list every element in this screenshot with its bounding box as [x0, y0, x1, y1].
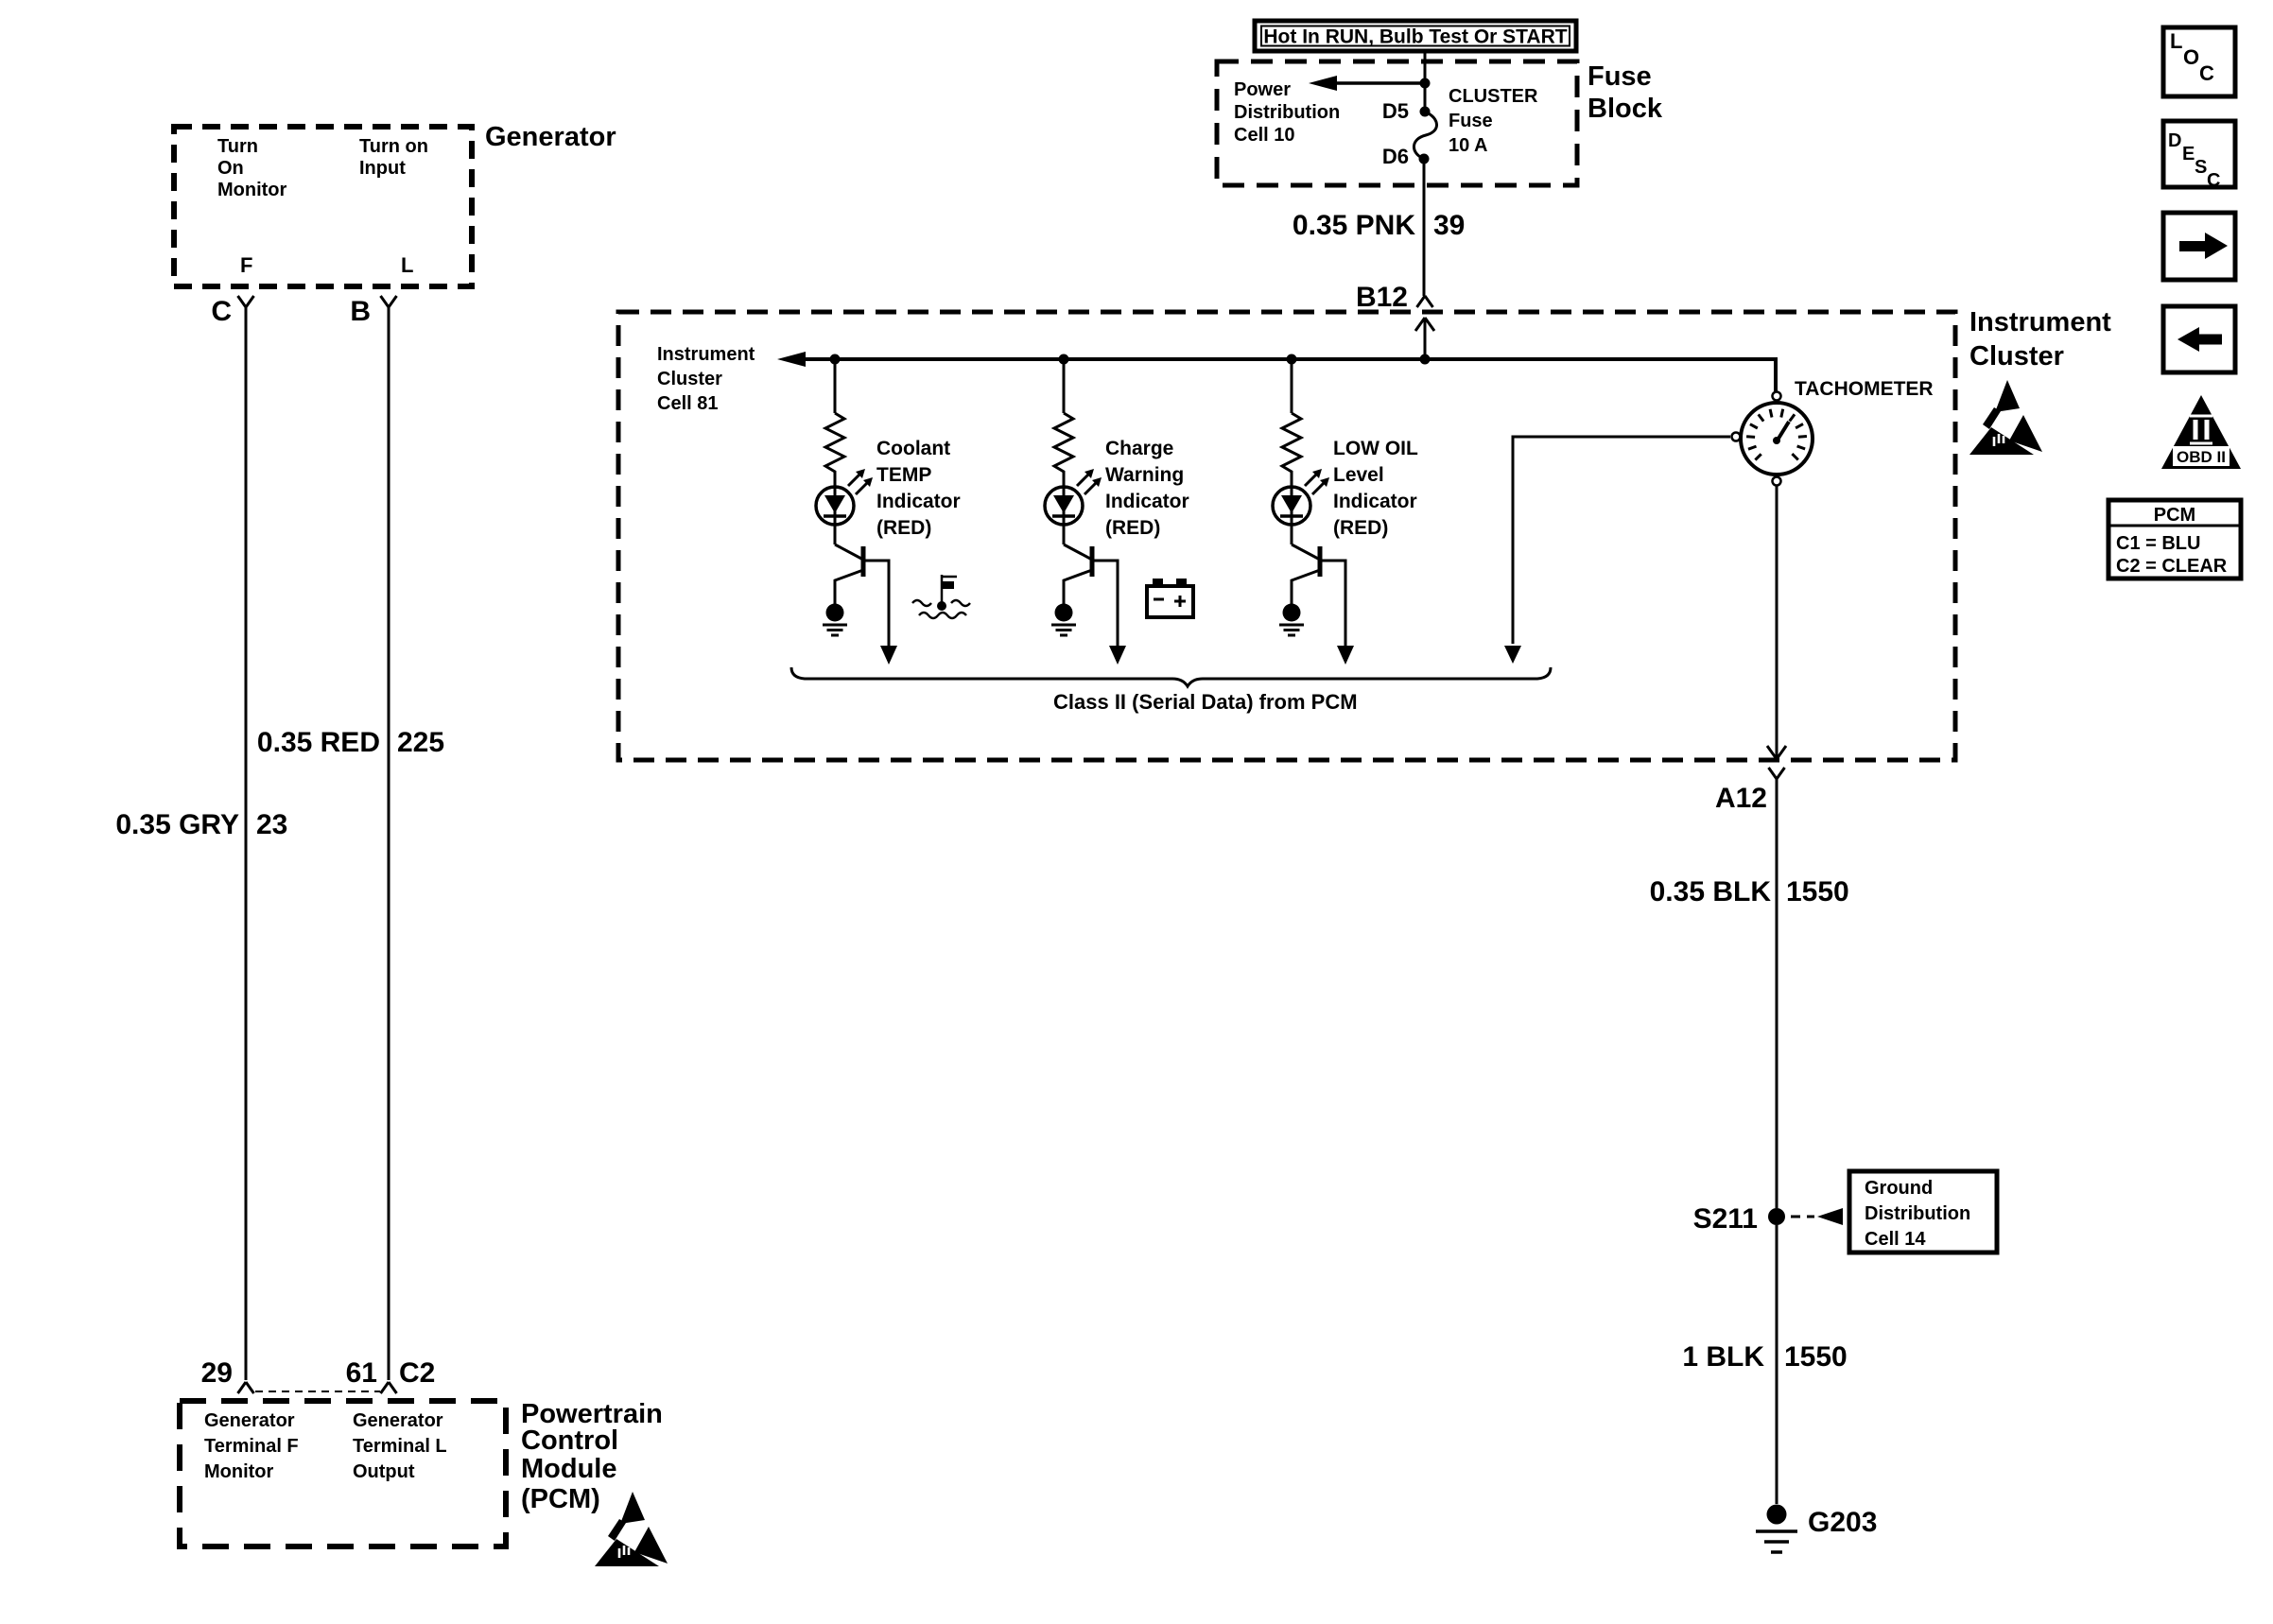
svg-text:B12: B12	[1356, 282, 1408, 313]
svg-text:39: 39	[1433, 210, 1465, 241]
svg-text:Indicator: Indicator	[1333, 491, 1417, 512]
svg-text:L: L	[2170, 29, 2182, 53]
svg-text:Ground: Ground	[1865, 1178, 1933, 1199]
svg-text:Module: Module	[521, 1454, 617, 1484]
svg-text:0.35 GRY: 0.35 GRY	[115, 809, 239, 840]
svg-text:1 BLK: 1 BLK	[1682, 1341, 1764, 1373]
svg-text:Monitor: Monitor	[217, 180, 287, 200]
svg-text:C: C	[2199, 61, 2214, 85]
svg-text:Indicator: Indicator	[876, 491, 961, 512]
svg-text:L: L	[401, 253, 413, 277]
svg-text:0.35 RED: 0.35 RED	[257, 727, 380, 758]
svg-text:Hot In RUN, Bulb Test Or START: Hot In RUN, Bulb Test Or START	[1263, 26, 1567, 48]
svg-text:S: S	[2195, 157, 2207, 178]
svg-text:Distribution: Distribution	[1234, 102, 1340, 123]
svg-text:On: On	[217, 158, 244, 179]
svg-text:Power: Power	[1234, 79, 1291, 100]
svg-text:S211: S211	[1693, 1203, 1758, 1235]
svg-text:Cluster: Cluster	[1969, 341, 2064, 371]
svg-text:Fuse: Fuse	[1588, 61, 1652, 92]
svg-text:LOW OIL: LOW OIL	[1333, 438, 1418, 459]
svg-text:Cell 81: Cell 81	[657, 393, 718, 414]
svg-text:Block: Block	[1588, 94, 1663, 124]
svg-text:Input: Input	[359, 158, 406, 179]
svg-text:E: E	[2182, 144, 2195, 164]
svg-text:C1 = BLU: C1 = BLU	[2116, 533, 2200, 554]
svg-text:D6: D6	[1382, 145, 1409, 168]
svg-text:TEMP: TEMP	[876, 464, 931, 486]
svg-text:D5: D5	[1382, 99, 1409, 123]
svg-text:Monitor: Monitor	[204, 1461, 274, 1482]
svg-text:23: 23	[256, 809, 287, 840]
svg-text:Turn: Turn	[217, 136, 258, 157]
svg-text:PCM: PCM	[2154, 505, 2195, 526]
svg-text:Generator: Generator	[204, 1410, 295, 1431]
svg-text:Cell 10: Cell 10	[1234, 125, 1294, 146]
svg-text:A12: A12	[1715, 783, 1767, 814]
svg-text:Indicator: Indicator	[1105, 491, 1189, 512]
svg-text:Charge: Charge	[1105, 438, 1173, 459]
svg-text:C2: C2	[399, 1357, 435, 1389]
svg-text:D: D	[2168, 130, 2181, 151]
svg-text:Level: Level	[1333, 464, 1384, 486]
svg-text:G203: G203	[1808, 1507, 1877, 1538]
svg-text:61: 61	[346, 1357, 377, 1389]
svg-text:(PCM): (PCM)	[521, 1484, 600, 1514]
svg-text:225: 225	[397, 727, 444, 758]
svg-text:29: 29	[201, 1357, 233, 1389]
svg-text:(RED): (RED)	[876, 517, 931, 539]
svg-text:Coolant: Coolant	[876, 438, 950, 459]
svg-text:1550: 1550	[1784, 1341, 1848, 1373]
svg-text:C: C	[211, 296, 232, 327]
svg-text:O: O	[2183, 45, 2199, 69]
svg-text:(RED): (RED)	[1333, 517, 1388, 539]
svg-text:Terminal F: Terminal F	[204, 1436, 299, 1457]
svg-text:0.35 BLK: 0.35 BLK	[1650, 876, 1772, 907]
svg-text:Warning: Warning	[1105, 464, 1184, 486]
svg-text:(RED): (RED)	[1105, 517, 1160, 539]
svg-text:Generator: Generator	[485, 122, 616, 152]
svg-text:Distribution: Distribution	[1865, 1203, 1970, 1224]
svg-text:B: B	[350, 296, 371, 327]
svg-text:C2 = CLEAR: C2 = CLEAR	[2116, 556, 2228, 577]
svg-text:C: C	[2207, 170, 2220, 191]
svg-text:Fuse: Fuse	[1449, 111, 1493, 131]
svg-text:Terminal L: Terminal L	[353, 1436, 447, 1457]
svg-text:10 A: 10 A	[1449, 135, 1488, 156]
svg-text:Instrument: Instrument	[657, 344, 755, 365]
svg-text:Instrument: Instrument	[1969, 307, 2111, 337]
svg-text:Cluster: Cluster	[657, 369, 722, 389]
svg-text:TACHOMETER: TACHOMETER	[1795, 378, 1934, 400]
svg-text:Control: Control	[521, 1425, 618, 1456]
svg-text:F: F	[240, 253, 252, 277]
svg-text:OBD II: OBD II	[2177, 448, 2226, 466]
svg-text:0.35 PNK: 0.35 PNK	[1293, 210, 1415, 241]
svg-text:Cell 14: Cell 14	[1865, 1229, 1926, 1250]
svg-text:CLUSTER: CLUSTER	[1449, 86, 1538, 107]
svg-text:Turn on: Turn on	[359, 136, 428, 157]
svg-text:Output: Output	[353, 1461, 415, 1482]
svg-text:Generator: Generator	[353, 1410, 443, 1431]
svg-text:Class II (Serial Data) from PC: Class II (Serial Data) from PCM	[1053, 690, 1358, 714]
svg-text:1550: 1550	[1786, 876, 1849, 907]
